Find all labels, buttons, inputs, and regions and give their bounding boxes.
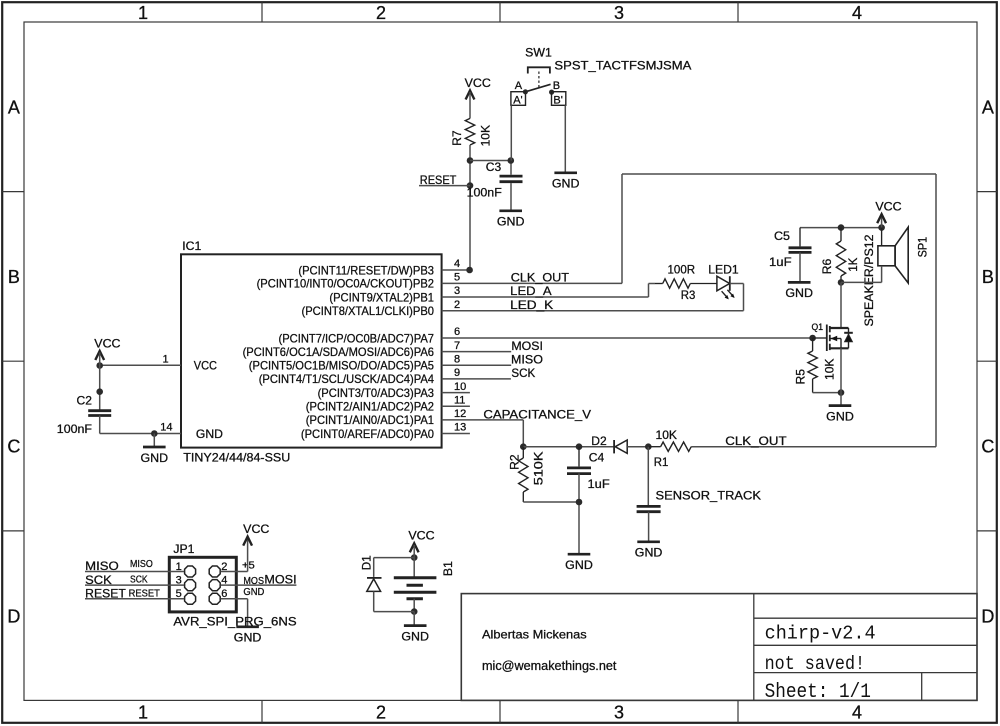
svg-text:C4: C4 bbox=[589, 450, 605, 464]
svg-text:(PCINT8/XTAL1/CLKI)PB0: (PCINT8/XTAL1/CLKI)PB0 bbox=[302, 304, 435, 318]
junction R6 top bbox=[838, 224, 845, 231]
svg-text:Q1: Q1 bbox=[812, 322, 824, 332]
svg-text:1: 1 bbox=[138, 702, 148, 722]
svg-text:1uF: 1uF bbox=[588, 477, 610, 491]
wire SCK pin9 bbox=[442, 378, 511, 380]
svg-text:SPEAKER/PS12: SPEAKER/PS12 bbox=[864, 235, 876, 327]
svg-text:A: A bbox=[8, 98, 20, 118]
junction pin1 node bbox=[96, 362, 103, 369]
wire VCC to C2 bbox=[99, 353, 101, 411]
svg-text:MISO: MISO bbox=[130, 559, 153, 570]
svg-text:GND: GND bbox=[196, 427, 223, 441]
svg-text:C2: C2 bbox=[77, 394, 93, 408]
resistor R7 bbox=[465, 118, 474, 145]
svg-text:VCC: VCC bbox=[243, 522, 270, 536]
wire C3 top bbox=[470, 160, 511, 162]
svg-text:R5: R5 bbox=[793, 369, 807, 385]
svg-text:VCC: VCC bbox=[875, 200, 902, 214]
svg-text:GND: GND bbox=[785, 286, 813, 300]
wire C2 to pin14 net bbox=[99, 416, 101, 434]
svg-text:GND: GND bbox=[243, 587, 264, 598]
power VCC (speaker) bbox=[877, 214, 886, 223]
resistor R6 bbox=[840, 228, 842, 241]
svg-text:RESET: RESET bbox=[420, 173, 457, 187]
svg-text:chirp-v2.4: chirp-v2.4 bbox=[765, 623, 876, 645]
svg-text:13: 13 bbox=[454, 422, 466, 434]
svg-text:1: 1 bbox=[138, 3, 148, 23]
svg-text:A: A bbox=[982, 98, 994, 118]
svg-text:D: D bbox=[7, 606, 20, 626]
svg-text:GND: GND bbox=[141, 451, 169, 465]
wire gate net pin6 bbox=[442, 337, 813, 339]
svg-text:GND: GND bbox=[234, 631, 262, 645]
capacitor sensor track bbox=[637, 505, 661, 508]
svg-text:TINY24/44/84-SSU: TINY24/44/84-SSU bbox=[183, 450, 290, 464]
svg-text:100nF: 100nF bbox=[57, 422, 92, 436]
wire R6 junction to Q1 drain bbox=[840, 282, 842, 328]
svg-text:(PCINT2/AIN1/ADC2)PA2: (PCINT2/AIN1/ADC2)PA2 bbox=[306, 400, 435, 414]
svg-text:SP1: SP1 bbox=[916, 237, 930, 258]
IC left pin stubs bbox=[100, 364, 181, 366]
svg-text:C5: C5 bbox=[774, 229, 790, 243]
svg-text:8: 8 bbox=[454, 354, 460, 366]
svg-text:+5: +5 bbox=[242, 560, 255, 571]
svg-text:mic@wemakethings.net: mic@wemakethings.net bbox=[482, 659, 617, 673]
ground GND (SW1) bbox=[554, 171, 577, 174]
wire C5 to GND bbox=[799, 252, 801, 281]
junction C4-R2 bbox=[576, 499, 583, 506]
speaker SP1 bbox=[881, 228, 883, 246]
svg-text:(PCINT0/AREF/ADC0)PA0: (PCINT0/AREF/ADC0)PA0 bbox=[301, 427, 434, 441]
svg-text:C: C bbox=[981, 437, 994, 457]
diode D1 bbox=[367, 577, 382, 579]
svg-text:MOSI: MOSI bbox=[264, 573, 296, 587]
wire JP1 GND bbox=[221, 598, 248, 600]
wire B1 top bbox=[413, 545, 415, 577]
svg-text:C3: C3 bbox=[486, 160, 502, 174]
wire VCC to R7 bbox=[469, 92, 471, 118]
wire LED1 cathode bbox=[730, 283, 744, 285]
svg-text:CLK_OUT: CLK_OUT bbox=[511, 271, 570, 285]
wire CAPACITANCE_V pin12 bbox=[442, 419, 524, 421]
title block frame bbox=[461, 594, 977, 701]
capacitor C5 bbox=[799, 228, 801, 247]
junction C2 stub bbox=[96, 388, 103, 395]
wire CLK_OUT top run bbox=[622, 173, 936, 175]
svg-text:B': B' bbox=[553, 94, 562, 106]
svg-text:10K: 10K bbox=[478, 125, 492, 147]
svg-text:(PCINT3/T0/ADC3)PA3: (PCINT3/T0/ADC3)PA3 bbox=[318, 386, 435, 400]
junction R6 bottom bbox=[838, 279, 845, 286]
resistor R2 bbox=[519, 458, 528, 492]
junction gate node bbox=[809, 335, 816, 342]
svg-text:10: 10 bbox=[454, 381, 466, 393]
wire D1 bottom bbox=[373, 591, 375, 611]
svg-text:6: 6 bbox=[454, 326, 460, 338]
wire R2 to C4 bottom bbox=[523, 501, 579, 503]
svg-text:LED_K: LED_K bbox=[510, 298, 553, 312]
svg-text:R3: R3 bbox=[681, 288, 696, 302]
wire MISO pin8 bbox=[442, 364, 512, 366]
wire R5 bottom bbox=[813, 392, 841, 394]
svg-text:100nF: 100nF bbox=[467, 186, 502, 200]
svg-text:(PCINT5/OC1B/MISO/DO/ADC5)PA5: (PCINT5/OC1B/MISO/DO/ADC5)PA5 bbox=[249, 359, 434, 373]
wire B1 GND stem bbox=[413, 612, 415, 626]
svg-text:CAPACITANCE_V: CAPACITANCE_V bbox=[483, 407, 591, 421]
svg-text:MISO: MISO bbox=[85, 559, 119, 573]
junction R2 node bbox=[520, 443, 527, 450]
wire Q1 source bbox=[840, 348, 842, 405]
svg-text:3: 3 bbox=[614, 702, 624, 722]
svg-text:GND: GND bbox=[826, 409, 854, 423]
svg-text:R1: R1 bbox=[654, 455, 669, 469]
svg-text:10K: 10K bbox=[656, 428, 678, 442]
IC IC1 ATTINY24/44/84 bbox=[181, 254, 442, 447]
net label RESET bbox=[419, 185, 470, 187]
capacitor C4 bbox=[578, 447, 580, 467]
svg-text:D1: D1 bbox=[359, 555, 373, 570]
junction GND pin14 bbox=[151, 430, 158, 437]
svg-text:LED_A: LED_A bbox=[510, 284, 551, 298]
LED LED1 bbox=[717, 276, 730, 291]
junction VCC speaker bbox=[878, 224, 885, 231]
ground GND (B1) bbox=[404, 624, 427, 627]
wire LED_A pin3 bbox=[442, 296, 649, 298]
JP1 pads bbox=[185, 566, 196, 577]
svg-text:GND: GND bbox=[565, 558, 593, 572]
resistor R1 bbox=[648, 446, 660, 448]
svg-text:SCK: SCK bbox=[511, 366, 535, 380]
svg-text:not saved!: not saved! bbox=[765, 653, 866, 675]
wire GND stem (pin14) bbox=[153, 434, 155, 447]
transistor Q1 bbox=[813, 337, 827, 339]
svg-text:GND: GND bbox=[552, 177, 580, 191]
svg-text:VCC: VCC bbox=[194, 359, 217, 373]
wire C4 bottom bbox=[578, 473, 580, 553]
ground GND (sensor) bbox=[637, 540, 660, 543]
junction B1 bottom bbox=[411, 608, 418, 615]
wire sensor to GND bbox=[648, 512, 650, 542]
power VCC (B1) bbox=[410, 543, 419, 552]
svg-text:GND: GND bbox=[497, 215, 525, 229]
capacitor C3 bbox=[500, 175, 523, 178]
junction B1 top bbox=[411, 554, 418, 561]
svg-text:Albertas Mickenas: Albertas Mickenas bbox=[482, 628, 587, 642]
svg-text:3: 3 bbox=[454, 285, 460, 297]
capacitor C2 bbox=[88, 409, 111, 412]
svg-text:MOSI: MOSI bbox=[511, 339, 543, 353]
ground GND (Q1) bbox=[829, 404, 852, 407]
svg-text:4: 4 bbox=[852, 702, 862, 722]
wire CLK_OUT right drop bbox=[935, 174, 937, 447]
svg-text:(PCINT6/OC1A/SDA/MOSI/ADC6)PA6: (PCINT6/OC1A/SDA/MOSI/ADC6)PA6 bbox=[243, 345, 435, 359]
svg-text:R2: R2 bbox=[507, 454, 521, 470]
svg-text:1uF: 1uF bbox=[769, 255, 792, 269]
svg-text:Sheet: 1/1: Sheet: 1/1 bbox=[765, 681, 871, 704]
svg-text:SPST_TACTFSMJSMA: SPST_TACTFSMJSMA bbox=[554, 58, 691, 72]
svg-text:4: 4 bbox=[454, 258, 460, 270]
svg-text:MISO: MISO bbox=[511, 353, 543, 367]
svg-text:SCK: SCK bbox=[130, 574, 148, 585]
wire LED_K pin2 bbox=[442, 310, 744, 312]
ground GND (C5) bbox=[788, 281, 811, 284]
wire R7 to pin4 (RESET net) bbox=[469, 145, 471, 270]
svg-text:510K: 510K bbox=[532, 452, 546, 486]
wire cap node run bbox=[523, 446, 613, 448]
svg-text:(PCINT9/XTAL2)PB1: (PCINT9/XTAL2)PB1 bbox=[329, 290, 434, 304]
wire sensor drop bbox=[647, 447, 649, 506]
wire D1 top bbox=[374, 557, 415, 559]
ground GND (JP1) bbox=[236, 625, 259, 628]
svg-text:CLK_OUT: CLK_OUT bbox=[725, 434, 787, 448]
junction source node bbox=[838, 389, 845, 396]
svg-text:12: 12 bbox=[454, 408, 466, 420]
connector JP1 box bbox=[169, 557, 236, 612]
svg-text:(PCINT11/RESET/DW)PB3: (PCINT11/RESET/DW)PB3 bbox=[298, 263, 434, 277]
svg-text:5: 5 bbox=[454, 272, 460, 284]
svg-text:2: 2 bbox=[376, 3, 386, 23]
svg-text:VCC: VCC bbox=[408, 529, 435, 543]
wire CLK_OUT riser bbox=[621, 174, 623, 283]
svg-text:SW1: SW1 bbox=[525, 46, 552, 60]
svg-text:GND: GND bbox=[401, 629, 429, 643]
wire MOSI (JP1) bbox=[221, 584, 297, 586]
svg-text:10K: 10K bbox=[822, 359, 836, 381]
svg-text:3: 3 bbox=[614, 3, 624, 23]
svg-text:VCC: VCC bbox=[465, 76, 492, 90]
svg-text:GND: GND bbox=[635, 546, 663, 560]
ground GND (C4) bbox=[568, 553, 591, 556]
junction pin4 bbox=[466, 267, 473, 274]
junction RESET node bbox=[467, 182, 474, 189]
svg-text:RESET: RESET bbox=[85, 586, 126, 600]
svg-text:B1: B1 bbox=[441, 561, 455, 576]
svg-text:R6: R6 bbox=[820, 258, 834, 274]
svg-text:1K: 1K bbox=[846, 258, 860, 272]
svg-text:(PCINT7/ICP/OC0B/ADC7)PA7: (PCINT7/ICP/OC0B/ADC7)PA7 bbox=[279, 331, 435, 345]
resistor R3 bbox=[655, 283, 663, 285]
svg-text:11: 11 bbox=[454, 394, 465, 406]
wire C5-R6-VCC top bbox=[800, 227, 882, 229]
svg-text:(PCINT10/INT0/OC0A/CKOUT)PB2: (PCINT10/INT0/OC0A/CKOUT)PB2 bbox=[257, 277, 435, 291]
wire MISO (JP1) bbox=[85, 571, 184, 573]
svg-text:A': A' bbox=[513, 94, 522, 106]
svg-text:R7: R7 bbox=[450, 130, 464, 146]
svg-text:(PCINT1/AIN0/ADC1)PA1: (PCINT1/AIN0/ADC1)PA1 bbox=[306, 413, 435, 427]
wire SW1 B' to GND bbox=[564, 105, 566, 172]
wire B1 bottom bbox=[413, 599, 415, 612]
switch SW1 bbox=[528, 67, 550, 73]
diode D2 bbox=[613, 440, 615, 453]
svg-text:4: 4 bbox=[852, 3, 862, 23]
svg-text:(PCINT4/T1/SCL/USCK/ADC4)PA4: (PCINT4/T1/SCL/USCK/ADC4)PA4 bbox=[259, 372, 435, 386]
svg-text:B: B bbox=[8, 267, 20, 287]
svg-text:14: 14 bbox=[160, 422, 172, 434]
ground GND (C3) bbox=[499, 209, 522, 212]
wire CLK_OUT pin5 bbox=[442, 282, 622, 284]
svg-text:7: 7 bbox=[454, 340, 460, 352]
junction C3 node bbox=[467, 157, 474, 164]
svg-text:AVR_SPI_PRG_6NS: AVR_SPI_PRG_6NS bbox=[173, 614, 296, 628]
svg-text:2: 2 bbox=[454, 299, 460, 311]
svg-text:VCC: VCC bbox=[94, 336, 121, 350]
svg-text:2: 2 bbox=[376, 702, 386, 722]
ground GND (pin14) bbox=[143, 446, 166, 449]
IC right pin stubs bbox=[442, 269, 470, 271]
power VCC (R7) bbox=[466, 91, 475, 100]
svg-text:9: 9 bbox=[454, 367, 460, 379]
svg-text:1: 1 bbox=[163, 353, 169, 365]
svg-text:RESET: RESET bbox=[129, 588, 161, 599]
svg-text:C: C bbox=[7, 437, 20, 457]
junction C4 top bbox=[576, 443, 583, 450]
battery B1 bbox=[394, 576, 437, 579]
power VCC (JP1) bbox=[243, 537, 252, 546]
wire +5 to VCC bbox=[221, 571, 248, 573]
wire C3 to GND bbox=[510, 183, 512, 210]
svg-text:JP1: JP1 bbox=[173, 542, 194, 556]
svg-text:LED1: LED1 bbox=[708, 262, 739, 276]
wire SW1 A' to C3 node bbox=[510, 105, 512, 160]
wire RESET (JP1) bbox=[85, 598, 184, 600]
wire SCK (JP1) bbox=[85, 584, 184, 586]
svg-text:100R: 100R bbox=[668, 262, 696, 276]
svg-text:D2: D2 bbox=[591, 434, 607, 448]
power VCC (C2) bbox=[95, 351, 104, 360]
svg-text:B: B bbox=[553, 80, 560, 92]
wire speaker to R6 bottom bbox=[881, 266, 883, 283]
wire CLK_OUT to R1 bbox=[691, 446, 936, 448]
svg-text:D: D bbox=[981, 606, 994, 626]
svg-text:SENSOR_TRACK: SENSOR_TRACK bbox=[656, 489, 762, 503]
wire MOSI pin7 bbox=[442, 351, 512, 353]
svg-text:B: B bbox=[982, 267, 994, 287]
wire D2 to R1 node bbox=[627, 446, 648, 448]
svg-text:A: A bbox=[515, 80, 523, 92]
resistor R5 bbox=[812, 338, 814, 351]
svg-text:SCK: SCK bbox=[85, 573, 112, 587]
junction R1 node bbox=[645, 443, 652, 450]
svg-text:IC1: IC1 bbox=[182, 239, 201, 253]
